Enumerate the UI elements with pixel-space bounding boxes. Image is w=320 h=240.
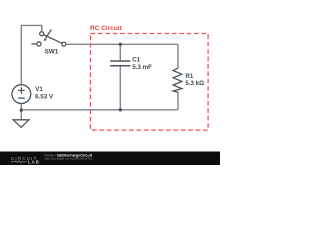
svg-text:6.53 V: 6.53 V <box>35 93 54 100</box>
node: junction V1/ground <box>20 108 23 111</box>
wire: down to resistor R1 <box>177 44 179 68</box>
svg-text:5.3 mF: 5.3 mF <box>132 64 152 71</box>
wire: resistor bottom lead <box>177 92 179 110</box>
wire: V1 bottom to ground <box>20 103 22 119</box>
svg-text:RC Circuit: RC Circuit <box>90 25 123 32</box>
svg-text:http://circuitlab.com/c2sk2m5y: http://circuitlab.com/c2sk2m5ya7c3 <box>44 157 92 161</box>
svg-text:V1: V1 <box>35 86 43 93</box>
resistor R1 <box>173 68 182 92</box>
svg-text:LAB: LAB <box>28 159 40 164</box>
wire: bottom return wire <box>21 109 178 111</box>
svg-text:SW1: SW1 <box>45 49 59 56</box>
node: junction top (C1 tap) <box>119 43 122 46</box>
voltage source V1 <box>12 85 31 104</box>
wire: C1 branch top <box>119 44 121 61</box>
wire: C1 branch bottom <box>119 66 121 110</box>
capacitor C1 <box>110 61 130 66</box>
ground <box>13 120 29 128</box>
svg-text:5.3 kΩ: 5.3 kΩ <box>185 80 204 87</box>
wire: V1 top up and over to switch top terminal <box>21 25 41 84</box>
switch SW1 <box>31 30 65 47</box>
node: junction bottom (C1 tap) <box>119 108 122 111</box>
box RC Circuit (red dashed annotation box) <box>91 34 209 131</box>
wire: switch output to top-right corner <box>66 43 178 45</box>
footer bar <box>0 152 220 166</box>
svg-text:C1: C1 <box>132 57 140 64</box>
svg-text:R1: R1 <box>185 73 193 80</box>
